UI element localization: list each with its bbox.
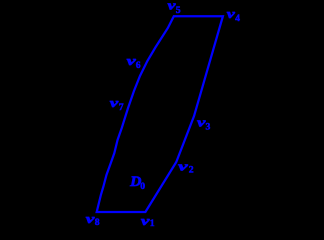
svg-text:v: v	[86, 211, 95, 226]
svg-text:6: 6	[136, 60, 141, 71]
svg-text:4: 4	[235, 13, 240, 24]
svg-text:v: v	[141, 213, 150, 228]
svg-text:7: 7	[119, 102, 124, 113]
svg-text:2: 2	[189, 165, 194, 176]
svg-text:v: v	[127, 53, 136, 68]
svg-text:8: 8	[95, 217, 100, 228]
svg-text:0: 0	[140, 181, 145, 192]
polygon D0 boundary	[97, 16, 223, 212]
svg-text:v: v	[110, 95, 119, 110]
svg-text:v: v	[168, 0, 176, 12]
svg-text:v: v	[178, 158, 188, 173]
svg-text:3: 3	[206, 122, 211, 133]
svg-text:v: v	[197, 115, 206, 130]
svg-text:1: 1	[150, 218, 155, 229]
svg-text:5: 5	[176, 5, 181, 16]
svg-text:v: v	[227, 6, 235, 21]
